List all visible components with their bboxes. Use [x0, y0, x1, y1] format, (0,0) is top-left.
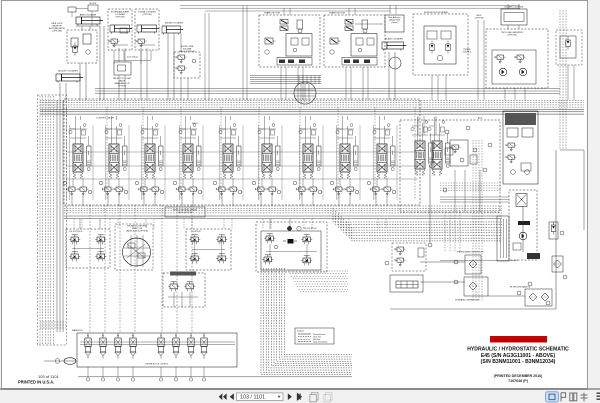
svg-text:(OPTION): (OPTION)	[475, 18, 484, 20]
svg-text:Legend: Legend	[297, 331, 304, 333]
svg-text:HYDRAULIC RESERVOIR: HYDRAULIC RESERVOIR	[455, 299, 479, 302]
svg-text:(OPTION): (OPTION)	[143, 14, 152, 16]
svg-text:LH JOYSTICK: LH JOYSTICK	[70, 231, 84, 233]
svg-text:SPOOL: SPOOL	[192, 123, 198, 125]
svg-text:VALVE (OPTION): VALVE (OPTION)	[178, 211, 193, 214]
svg-text:103 of 1101: 103 of 1101	[38, 374, 60, 379]
svg-text:VALVE (OPTION): VALVE (OPTION)	[179, 50, 195, 53]
svg-text:T2: T2	[175, 336, 177, 338]
svg-text:SWING CYLINDER: SWING CYLINDER	[165, 23, 184, 25]
svg-text:RH JOYSTICK: RH JOYSTICK	[303, 228, 317, 230]
svg-text:ARM CYLINDER: ARM CYLINDER	[80, 14, 97, 17]
svg-text:(S/N B3NM11001 - B3NM12034): (S/N B3NM11001 - B3NM12034)	[481, 359, 556, 365]
svg-text:CONTROL VALVE: CONTROL VALVE	[96, 117, 114, 120]
svg-text:PRESSURIZED RESERVOIR: PRESSURIZED RESERVOIR	[457, 252, 484, 254]
svg-text:(OPTION): (OPTION)	[508, 35, 517, 37]
svg-text:ENGINE BLOCK CONTROL: ENGINE BLOCK CONTROL	[146, 364, 169, 366]
svg-text:Load Sensed line: Load Sensed line	[313, 342, 328, 344]
svg-text:Pressurize line: Pressurize line	[313, 333, 325, 336]
svg-text:(OPTION): (OPTION)	[52, 31, 62, 33]
svg-text:T3: T3	[190, 336, 192, 338]
svg-text:CONTROL: CONTROL	[462, 52, 471, 54]
svg-text:TRAVEL MOTOR: TRAVEL MOTOR	[329, 12, 346, 15]
svg-text:P4: P4	[132, 336, 134, 338]
svg-text:PRINTED IN U.S.A.: PRINTED IN U.S.A.	[18, 380, 54, 385]
svg-text:T1: T1	[160, 336, 162, 338]
svg-text:Available Version (S/N 7xxx): Available Version (S/N 7xxx)	[493, 338, 544, 342]
svg-text:(PRINTED DECEMBER 2016): (PRINTED DECEMBER 2016)	[494, 374, 544, 378]
svg-text:P3: P3	[117, 336, 119, 338]
svg-text:BLADE CYLINDER: BLADE CYLINDER	[385, 38, 403, 41]
svg-text:HYDRAULIC / HYDROSTATIC SCHEMA: HYDRAULIC / HYDROSTATIC SCHEMATIC	[467, 347, 569, 353]
svg-text:103 / 1101: 103 / 1101	[240, 394, 265, 400]
svg-text:E45 (S/N AG3G11001 - ABOVE): E45 (S/N AG3G11001 - ABOVE)	[481, 353, 556, 359]
svg-text:MOTOR: MOTOR	[90, 3, 97, 5]
svg-text:AUX: AUX	[478, 117, 483, 120]
svg-text:BUCKET CYLINDER: BUCKET CYLINDER	[58, 71, 78, 73]
svg-text:VALVE (E-ISO) (OPTION): VALVE (E-ISO) (OPTION)	[126, 230, 148, 233]
svg-text:(OPTION): (OPTION)	[116, 17, 125, 19]
svg-text:7167648 (P): 7167648 (P)	[508, 379, 529, 383]
svg-text:TRAVEL MOTOR: TRAVEL MOTOR	[264, 12, 281, 15]
svg-text:P1: P1	[87, 336, 89, 338]
svg-text:JOYSTICK: JOYSTICK	[191, 231, 201, 233]
svg-text:FILTER (HYDRAULIC): FILTER (HYDRAULIC)	[510, 286, 531, 289]
svg-text:Drain line: Drain line	[313, 335, 321, 338]
svg-text:Pilot line: Pilot line	[313, 338, 320, 341]
svg-text:MANIFOLD: MANIFOLD	[72, 329, 83, 332]
svg-text:Drain Tomato: Drain Tomato	[127, 56, 138, 59]
svg-text:SLEW MOTOR W/ BRAKE: SLEW MOTOR W/ BRAKE	[424, 11, 449, 14]
svg-text:(Option): (Option)	[391, 21, 398, 24]
svg-text:T4: T4	[203, 336, 205, 338]
svg-text:P2: P2	[102, 336, 104, 338]
